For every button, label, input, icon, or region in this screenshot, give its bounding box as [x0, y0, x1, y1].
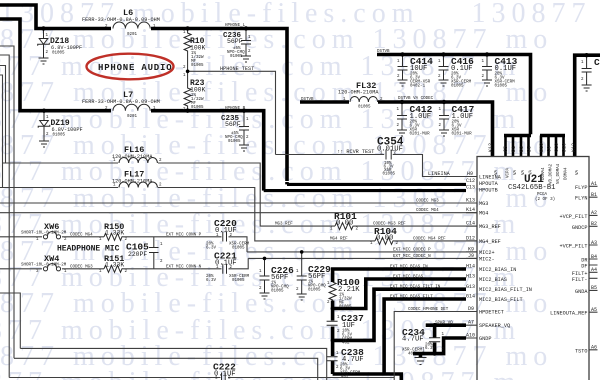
wire EXT_MIC_BIAS H13 to R100/C237 node: [333, 279, 466, 321]
capacitor C229: [297, 252, 307, 294]
svg-text:0.00: 0.00: [336, 220, 353, 228]
capacitor C413: [482, 55, 492, 81]
svg-text:MIC2_BIAS_FILT: MIC2_BIAS_FILT: [479, 297, 523, 303]
ground for C236: [241, 56, 251, 62]
corner step wire top-left D feeding FL17: [0, 75, 3, 188]
wire EXT_MIC_BIAS_FILT G14 to C238 bottom run: [333, 299, 466, 380]
svg-text:+VCP_FILT: +VCP_FILT: [559, 244, 587, 250]
junction C234/SPEAKER_VQ: [432, 323, 436, 327]
wire C354 to LINEINA H9: [393, 155, 477, 177]
ground for C229: [297, 294, 307, 300]
junction C229/MIC2+ row: [300, 250, 304, 254]
svg-text:MG4_REF: MG4_REF: [479, 239, 501, 245]
svg-text:0201-MUR: 0201-MUR: [452, 133, 473, 137]
jumper XW4: [43, 264, 60, 271]
svg-text:402: 402: [341, 376, 349, 380]
svg-text:GNDCP: GNDCP: [572, 225, 588, 231]
junction C234/GNDP run: [432, 351, 436, 355]
svg-text:H9: H9: [467, 171, 473, 177]
svg-text:K9: K9: [468, 247, 474, 253]
svg-text:PCGA: PCGA: [537, 193, 548, 197]
svg-text:4.7UF: 4.7UF: [402, 336, 424, 344]
capacitor C235: [239, 111, 249, 145]
junction R10/bus: [185, 26, 189, 30]
capacitor C234: [429, 338, 440, 342]
junction C235/bus: [242, 109, 246, 113]
resistor R101: [335, 223, 354, 230]
resistor R23: [184, 71, 191, 112]
wire R150 to C220: [123, 236, 222, 238]
svg-text:0.00: 0.00: [376, 235, 393, 243]
svg-text:C13: C13: [466, 185, 475, 191]
svg-text:1.33K: 1.33K: [105, 262, 124, 269]
svg-text:120-OHM-210MA: 120-OHM-210MA: [112, 154, 153, 160]
svg-text:DOMA4: DOMA4: [542, 167, 546, 180]
svg-text:FERR-33-OHM-0.8A-0.09-OHM: FERR-33-OHM-0.8A-0.09-OHM: [82, 99, 160, 105]
svg-text:6.3V: 6.3V: [206, 279, 217, 283]
zener diode DZ18: [38, 29, 50, 59]
capacitor C220 series: [223, 232, 227, 242]
svg-text:EXT MIC CONN P: EXT MIC CONN P: [166, 233, 202, 237]
resistor R150: [104, 233, 123, 240]
svg-text:CODEC MG3: CODEC MG3: [70, 265, 93, 269]
ground for C417: [439, 130, 449, 136]
svg-text:C10: C10: [554, 143, 560, 152]
wire EXT_MIC_BIAS_IN H14 to R100: [333, 269, 466, 282]
wire EXT_MIC_CODEC_P row to K9: [247, 251, 477, 253]
junction G13 net node: [331, 338, 335, 342]
wire IC top pin stubs group 2: [541, 136, 564, 157]
svg-text:B1: B1: [591, 192, 597, 198]
svg-text:HEADPHONE MIC: HEADPHONE MIC: [57, 245, 120, 254]
wire bottom row 1: [20, 348, 326, 380]
svg-text:C5: C5: [503, 146, 509, 152]
svg-text:VA: VA: [495, 169, 499, 175]
svg-text:01005: 01005: [271, 290, 284, 294]
ground for C416: [439, 80, 449, 86]
svg-text:HPHONE_L: HPHONE_L: [225, 24, 246, 28]
svg-text:01005: 01005: [339, 306, 352, 310]
svg-text:B10: B10: [539, 143, 545, 152]
svg-text:K13: K13: [466, 198, 475, 204]
svg-text:VA: VA: [522, 169, 526, 175]
wire C221 to MIC2- row: [229, 258, 249, 268]
svg-text:220PF: 220PF: [128, 251, 147, 258]
svg-text:EXT MIC BIAS FILT IN: EXT MIC BIAS FILT IN: [390, 286, 441, 290]
wire XW4 jumper to R151: [62, 268, 104, 270]
svg-text:120-OHM-210MA: 120-OHM-210MA: [112, 179, 153, 185]
capacitor C222 series: [222, 373, 226, 380]
inductor FL16: [119, 158, 157, 164]
junction C416/rail: [441, 52, 445, 56]
ground for C412: [397, 130, 407, 136]
capacitor C412: [397, 102, 407, 130]
junction C413/rail: [485, 52, 489, 56]
svg-text:↑↑ RCVR TEST: ↑↑ RCVR TEST: [337, 149, 374, 155]
inductor FL32: [350, 97, 378, 103]
svg-text:A7: A7: [468, 320, 474, 326]
wire CODEC_MG4 row to K14: [0, 212, 477, 214]
svg-text:DF: DF: [581, 264, 587, 270]
svg-text:01005: 01005: [383, 173, 396, 177]
svg-text:DOMA4: DOMA4: [565, 167, 569, 180]
svg-text:G13: G13: [466, 284, 475, 290]
svg-text:CODEC HPHONE DET: CODEC HPHONE DET: [408, 308, 449, 312]
svg-text:MIC2_BIAS: MIC2_BIAS: [479, 277, 507, 283]
svg-text:VCPA: VCPA: [507, 167, 511, 178]
U21 top pin numbers rotated: [488, 143, 577, 152]
svg-text:01005: 01005: [232, 279, 245, 283]
svg-text:A3: A3: [591, 240, 597, 246]
svg-text:D9: D9: [468, 306, 474, 312]
svg-text:CODEC MG4: CODEC MG4: [416, 209, 439, 213]
wire EXT_MIC_BIAS_FILT_IN G13 to C237/C238 node: [333, 289, 466, 356]
junction C412/rail: [400, 100, 404, 104]
wire HPHONE_R bus from L7 to HPOUTB pin: [151, 111, 264, 187]
svg-text:01005: 01005: [495, 85, 508, 89]
svg-text:6.3V: 6.3V: [425, 347, 436, 351]
wire IC top pin stubs group 1: [506, 136, 529, 157]
svg-text:402: 402: [342, 342, 350, 346]
svg-text:DSTVB: DSTVB: [377, 50, 390, 54]
svg-text:MG4 REF: MG4 REF: [330, 237, 348, 241]
svg-text:01005: 01005: [191, 106, 204, 110]
wire bottom row 2: [14, 358, 318, 380]
svg-text:A6: A6: [591, 345, 597, 351]
wire CODEC_MG3 row to K13: [0, 202, 477, 204]
svg-text:01005: 01005: [191, 64, 204, 68]
junction right cap/rail: [584, 53, 588, 57]
capacitor C238: [327, 357, 338, 361]
U21 right pin numbers: [591, 181, 597, 351]
svg-text:VA: VA: [514, 169, 518, 175]
svg-text:EXT MIC BIAS: EXT MIC BIAS: [393, 276, 424, 280]
capacitor C105: [149, 248, 159, 253]
svg-text:C14: C14: [466, 221, 475, 227]
resistor R151: [104, 265, 123, 272]
svg-text:VD_DOMA2: VD_DOMA2: [550, 163, 554, 184]
svg-text:SPEAKER_VQ: SPEAKER_VQ: [479, 323, 510, 329]
svg-text:56PF: 56PF: [227, 38, 243, 45]
svg-text:A2: A2: [591, 210, 597, 216]
wire IC top pin bus bar 2: [540, 134, 565, 138]
svg-text:MG4: MG4: [479, 211, 488, 217]
junction DZ19/bus: [42, 109, 46, 113]
svg-text:A5: A5: [591, 307, 597, 313]
svg-text:HPDETECT: HPDETECT: [479, 310, 504, 316]
svg-text:6.8V-100PF: 6.8V-100PF: [52, 127, 83, 133]
junction C226/MIC2- row: [263, 257, 267, 261]
U21 top pin names inside rotated: [495, 163, 580, 184]
svg-text:1.33K: 1.33K: [105, 230, 124, 237]
svg-text:J9: J9: [468, 253, 474, 259]
svg-text:100K: 100K: [190, 87, 206, 94]
wire XW4 row left segment: [0, 268, 42, 270]
wire C105 stem: [153, 237, 155, 269]
wire SPEAKER_VQ ground stem: [425, 324, 427, 326]
svg-text:01005: 01005: [230, 55, 243, 59]
svg-text:XW4: XW4: [44, 254, 59, 264]
capacitor C237: [327, 321, 338, 325]
wire C222 row: [9, 377, 394, 379]
wire C234 stem to SPEAKER_VQ: [433, 325, 437, 337]
svg-text:B4: B4: [591, 254, 597, 260]
svg-text:MIC2_BIAS_FILT_IN: MIC2_BIAS_FILT_IN: [479, 287, 532, 293]
svg-text:+VCP_FILT: +VCP_FILT: [559, 214, 587, 220]
svg-text:TSTO: TSTO: [575, 348, 587, 354]
capacitor C416: [439, 55, 449, 81]
svg-text:01005: 01005: [52, 52, 65, 56]
svg-text:0201: 0201: [127, 33, 138, 37]
svg-text:EXT MIC BIAS FILT: EXT MIC BIAS FILT: [390, 296, 433, 300]
U21 right pin stubs: [589, 186, 598, 349]
wire MG3_REF right of R101 to C14: [354, 225, 477, 227]
svg-text:VA: VA: [530, 169, 534, 175]
wire GNDP A10 to ground run: [413, 338, 466, 358]
svg-text:A10: A10: [466, 333, 475, 339]
svg-text:MG3 REF: MG3 REF: [275, 223, 293, 227]
wire R151 to C221: [123, 268, 222, 270]
wire MG4_REF right of R104 to D12: [394, 240, 477, 242]
svg-text:CS42L65B-B1: CS42L65B-B1: [508, 184, 555, 192]
svg-text:01005: 01005: [53, 134, 66, 138]
wire FL17 row to R104/MG4_REF: [0, 188, 375, 241]
svg-text:HPOUTB: HPOUTB: [479, 188, 498, 194]
svg-text:MG3: MG3: [479, 201, 488, 207]
svg-text:XW6: XW6: [44, 222, 59, 232]
U21 left pin numbers: [466, 171, 475, 339]
svg-text:MIC2-: MIC2-: [479, 256, 495, 262]
svg-text:D1: D1: [511, 146, 517, 152]
capacitor C417: [439, 102, 449, 130]
svg-text:HPOUTA: HPOUTA: [479, 181, 499, 187]
svg-text:C: C: [594, 57, 600, 68]
ground for C414: [398, 80, 408, 86]
svg-text:EXT MIC CONN N: EXT MIC CONN N: [166, 265, 202, 269]
svg-text:GNDP: GNDP: [479, 336, 491, 342]
wire XW6 jumper to R150: [62, 236, 104, 238]
svg-text:D3: D3: [519, 146, 525, 152]
svg-text:0201-MUR: 0201-MUR: [410, 133, 431, 137]
wire FL16 row to R101/MG3_REF: [3, 163, 336, 226]
svg-text:01005: 01005: [308, 289, 321, 293]
U21 left pin stubs: [466, 177, 477, 339]
ground for right edge capacitor: [582, 85, 592, 91]
svg-text:01005: 01005: [228, 140, 241, 144]
wire DSTVB to FL32: [300, 100, 349, 104]
svg-text:FLYP: FLYP: [575, 185, 587, 191]
svg-text:SHORT-10L-0.1MM-2M: SHORT-10L-0.1MM-2M: [21, 232, 67, 236]
svg-text:01005: 01005: [358, 106, 371, 110]
wire HPHONE_TEST from R10/R23 node: [188, 71, 276, 154]
corner step wire top-left A: [0, 46, 14, 358]
svg-text:A4: A4: [591, 267, 597, 273]
resistor R100: [329, 282, 336, 301]
ground for GNDP/C234: [415, 358, 427, 365]
resistor R10: [184, 29, 191, 72]
svg-text:K12: K12: [571, 143, 577, 152]
svg-text:100K: 100K: [190, 45, 206, 52]
svg-text:DSTVB: DSTVB: [301, 98, 314, 102]
svg-text:FILT-: FILT-: [572, 277, 588, 283]
svg-text:K12: K12: [488, 143, 494, 152]
svg-text:C12: C12: [466, 178, 475, 184]
wire IC top pin bus bar 1: [504, 134, 531, 138]
wire HPHONE_R bus from left edge to L7: [0, 19, 111, 111]
wire HPHONE_L bus from left edge to L6: [0, 5, 111, 29]
corner step wire top-left B: [0, 55, 9, 378]
wire SPEAKER_VQ A7 row: [426, 323, 466, 327]
capacitor C414: [398, 55, 408, 81]
wire DSTVB_VA_CODEC rail from FL32 to IC pin K12: [378, 102, 493, 157]
svg-text:GNDA: GNDA: [575, 289, 588, 295]
svg-text:D12: D12: [466, 236, 475, 242]
red ellipse HPHONE AUDIO: [87, 54, 174, 80]
svg-text:HPHONE TEST: HPHONE TEST: [220, 66, 254, 72]
svg-text:D5: D5: [527, 146, 533, 152]
capacitor C236: [241, 29, 251, 57]
junction C414/rail: [400, 52, 404, 56]
ground for DZ19: [39, 141, 49, 147]
junction C417/rail: [442, 100, 446, 104]
svg-text:VA: VA: [576, 169, 580, 175]
wire CODEC_HPHONE_DET row to D9: [394, 312, 477, 380]
corner step wire top-left C feeding FL16: [0, 66, 6, 164]
wire EXT_MIC_CODEC_N row to J9: [248, 257, 477, 259]
svg-text:EXT MIC CODEC P: EXT MIC CODEC P: [393, 248, 431, 252]
svg-text:402: 402: [408, 353, 416, 357]
svg-text:H14: H14: [466, 264, 475, 270]
U21 left pin names inside: [479, 175, 532, 343]
wire XW6 row left segment: [0, 236, 42, 238]
svg-text:MIC2+: MIC2+: [479, 250, 495, 256]
svg-text:(2 OF 3): (2 OF 3): [535, 197, 555, 202]
svg-text:LINEINA: LINEINA: [428, 171, 451, 177]
svg-text:SPKR VQ: SPKR VQ: [435, 322, 453, 326]
svg-text:MG3_REF: MG3_REF: [479, 224, 501, 230]
capacitor C354 series: [386, 150, 391, 160]
wire HPHONE_L bus from L6 to HPOUTA pin: [151, 29, 287, 182]
wire RCVR_TEST line to C354: [276, 154, 385, 156]
svg-text:D10: D10: [562, 143, 568, 152]
op-amp U21 IC body CS42L65B-B1: [477, 157, 589, 380]
ground for C413: [482, 80, 492, 86]
svg-text:0402-1: 0402-1: [410, 85, 426, 89]
svg-text:HPHONE AUDIO: HPHONE AUDIO: [98, 63, 172, 73]
inductor FL17: [119, 182, 157, 188]
svg-text:SHORT-10L-0.1MM-2M: SHORT-10L-0.1MM-2M: [21, 264, 67, 268]
svg-text:B5: B5: [591, 285, 597, 291]
junction DZ18/bus: [41, 26, 45, 30]
junction C236/bus: [244, 26, 248, 30]
ground for DZ18: [39, 58, 49, 64]
wire DSTVB top rail: [377, 55, 531, 135]
svg-text:NN_DOMA4: NN_DOMA4: [557, 163, 561, 184]
svg-text:CODEC MG4: CODEC MG4: [70, 233, 93, 237]
wire left row y293 corner down: [0, 293, 20, 348]
svg-text:A1: A1: [591, 181, 597, 187]
svg-text:B2: B2: [591, 221, 597, 227]
wire DSTVB right rail segment: [575, 55, 600, 156]
svg-text:H13: H13: [466, 274, 475, 280]
svg-text:120-OHM-210MA: 120-OHM-210MA: [338, 90, 379, 96]
svg-text:6.8V-100PF: 6.8V-100PF: [51, 45, 82, 51]
junction H13 net node: [331, 307, 335, 311]
ground for C226: [260, 293, 270, 299]
capacitor at right edge on DSTVB rail: [582, 55, 592, 85]
U21 right pin names inside: [550, 185, 588, 354]
jumper XW6: [43, 232, 60, 239]
svg-text:56PF: 56PF: [225, 121, 241, 128]
svg-text:LINEOUTA_REF: LINEOUTA_REF: [550, 311, 587, 317]
svg-text:C9: C9: [547, 146, 553, 152]
svg-text:FERR-33-OHM-0.8A-0.09-OHM: FERR-33-OHM-0.8A-0.09-OHM: [82, 17, 160, 23]
svg-text:EXT MIC BIAS IN: EXT MIC BIAS IN: [390, 266, 428, 270]
ground for C235: [239, 145, 249, 151]
capacitor C226: [260, 258, 270, 293]
zener diode DZ19: [38, 111, 50, 141]
svg-text:K14: K14: [466, 207, 475, 213]
svg-text:0201: 0201: [127, 115, 138, 119]
svg-text:01005: 01005: [451, 85, 464, 89]
resistor R104: [375, 237, 394, 244]
svg-text:CODEC MG3: CODEC MG3: [416, 200, 439, 204]
svg-text:CODEC MG4 REF: CODEC MG4 REF: [413, 237, 446, 241]
inductor L6: [113, 22, 150, 29]
inductor L7: [113, 104, 150, 111]
svg-text:EXT_MIC_CODEC_N: EXT_MIC_CODEC_N: [393, 255, 431, 259]
junction R23/bus: [185, 109, 189, 113]
capacitor C221 series: [223, 264, 227, 274]
wire C220 to MIC2+ row: [229, 237, 248, 252]
svg-text:FLYN: FLYN: [575, 196, 587, 202]
svg-text:G14: G14: [466, 294, 475, 300]
node HPHONE_TEST: [186, 70, 190, 74]
svg-text:MIC2_BIAS_IN: MIC2_BIAS_IN: [479, 267, 516, 273]
